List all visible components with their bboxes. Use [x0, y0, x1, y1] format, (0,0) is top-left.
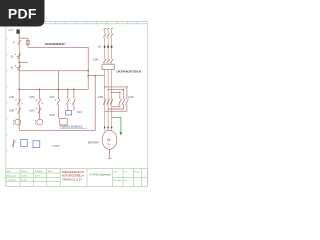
pin numbers row	[104, 46, 113, 48]
stop button S0	[17, 54, 21, 60]
star links back	[112, 105, 120, 107]
bottom bus	[19, 129, 95, 131]
bottom left component	[13, 139, 15, 147]
frame right border	[146, 21, 148, 186]
svg-text:DIAGRAMA DE MANDO: DIAGRAMA DE MANDO	[45, 42, 66, 46]
motor terminal marks	[104, 127, 112, 129]
breaker Q1 block	[16, 29, 19, 33]
svg-text:2 RPM: 2 RPM	[52, 145, 59, 148]
bus 1	[19, 88, 88, 90]
drawing frame top graduation band	[6, 21, 148, 23]
svg-text:DIAGRAMA DE POTENCIA: DIAGRAMA DE POTENCIA	[117, 69, 143, 73]
timer box	[60, 119, 67, 125]
motor tail	[109, 149, 111, 158]
bridge to star contactor	[105, 87, 127, 99]
svg-text:-K3M: -K3M	[128, 96, 134, 99]
svg-text:K1M: K1M	[9, 96, 14, 99]
svg-text:11-05: 11-05	[21, 180, 27, 182]
svg-text:MOTOR P.: MOTOR P.	[88, 141, 100, 144]
junction dots	[19, 62, 128, 93]
svg-text:Rev.: Rev.	[48, 171, 53, 173]
motor M1	[102, 130, 117, 149]
thermal relay F2 box	[102, 64, 114, 69]
start button S1	[17, 65, 21, 71]
svg-text:Hoja: Hoja	[135, 171, 140, 173]
svg-text:A.P.S.: A.P.S.	[35, 174, 41, 177]
breaker contacts	[103, 33, 106, 37]
second contact row	[18, 108, 21, 114]
svg-text:A. Peña Saavedra: A. Peña Saavedra	[89, 172, 111, 176]
svg-text:Esc.: Esc.	[114, 171, 119, 173]
coil K2M	[37, 119, 43, 125]
svg-text:Comprob.: Comprob.	[7, 179, 17, 182]
svg-text:Dibujado: Dibujado	[7, 175, 16, 177]
svg-text:K1M: K1M	[77, 112, 82, 114]
svg-text:K1M: K1M	[29, 110, 34, 113]
title block small green texts	[7, 170, 140, 182]
rung 2	[19, 70, 88, 72]
mini relay box blue	[66, 111, 72, 115]
control ladder	[12, 34, 95, 147]
PDF badge	[0, 0, 45, 27]
contact ticks on rail	[18, 40, 21, 44]
svg-text:3~: 3~	[107, 142, 111, 146]
svg-text:Fecha: Fecha	[21, 171, 28, 173]
phase L1 line	[104, 30, 106, 131]
green rotation arrow	[112, 117, 121, 132]
blue box timer a	[21, 140, 27, 147]
svg-text:K2M: K2M	[50, 114, 55, 117]
svg-text:TRIANGULO 2T: TRIANGULO 2T	[62, 177, 82, 181]
svg-text:K3M: K3M	[9, 110, 14, 113]
svg-text:FUERZA BOBINAS: FUERZA BOBINAS	[60, 124, 83, 128]
coil K1M	[15, 119, 21, 125]
svg-text:Dib.: Dib.	[7, 171, 11, 173]
tap to control	[88, 75, 104, 77]
svg-text:-K1M: -K1M	[92, 59, 98, 62]
svg-text:Nombre: Nombre	[35, 170, 44, 173]
svg-text:-K2M: -K2M	[97, 96, 103, 99]
svg-text:L1 N: L1 N	[8, 29, 13, 32]
jog to fuse branch	[19, 38, 28, 47]
power circuit	[88, 30, 128, 159]
phase L2 line	[107, 30, 109, 131]
phase L3 line	[111, 30, 113, 131]
svg-text:K2M: K2M	[50, 96, 55, 99]
svg-text:N. Plano: N. Plano	[114, 180, 123, 182]
K1M contacts	[103, 59, 106, 63]
supply ticks	[104, 28, 113, 30]
svg-text:10-05: 10-05	[21, 175, 27, 177]
breaker Q1 feed	[18, 34, 20, 131]
fuse F1	[27, 40, 30, 44]
star group contacts	[119, 99, 122, 105]
branch verticals with contacts	[39, 89, 41, 99]
frame left border	[6, 21, 8, 186]
title block table	[6, 169, 148, 187]
bypass wire	[19, 61, 28, 63]
blue box timer b	[33, 141, 40, 148]
svg-text:S2M: S2M	[29, 96, 34, 99]
svg-text:PDF: PDF	[8, 6, 37, 22]
group1 contacts below	[103, 99, 106, 105]
long rung upper	[28, 47, 88, 89]
svg-text:-Q3: -Q3	[97, 45, 102, 48]
